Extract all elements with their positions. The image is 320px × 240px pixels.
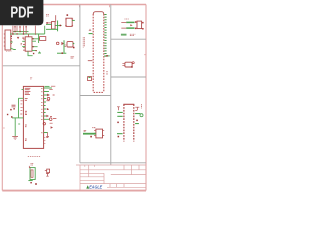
Q1 marks: [122, 63, 125, 65]
IC U4: [96, 129, 103, 138]
wire below U2: [28, 51, 33, 56]
crystal Q1: [125, 62, 132, 67]
label JP2: [141, 104, 143, 108]
junction: [7, 114, 8, 115]
EAGLE logo: [86, 185, 103, 190]
supply arrow down: [17, 37, 20, 39]
Y1 bottom marks: [28, 180, 32, 182]
label JP1: [83, 37, 84, 48]
connector J2: [137, 21, 142, 29]
wire: [126, 21, 134, 23]
wire bus lower: [10, 26, 45, 34]
U4 left ticks: [94, 131, 104, 136]
JP2 right marks: [135, 107, 139, 110]
U1 right pin ticks: [4, 34, 12, 46]
junction: [13, 108, 14, 109]
title block: [76, 165, 146, 191]
net ring: [140, 114, 143, 117]
capacitor plates: [12, 105, 16, 107]
label: [125, 18, 130, 20]
U3 pin-name text right inside: [41, 88, 43, 133]
label text below U1: [6, 51, 12, 53]
ground: [12, 137, 18, 140]
sheet divider H1: [3, 65, 80, 67]
wire top right: [45, 85, 50, 87]
sheet divider H right mid: [111, 76, 146, 78]
junction: [11, 36, 12, 37]
U3 left pin labels: [20, 101, 22, 114]
J2 pads: [135, 21, 144, 29]
supply arrow: [46, 115, 49, 118]
wire: [12, 117, 23, 119]
R1 left pin: [47, 22, 52, 24]
junction: [10, 109, 12, 111]
wire diagonal: [10, 48, 16, 50]
junction: [30, 182, 31, 183]
connector JP1 body: [93, 12, 104, 93]
U3 left green stub: [22, 89, 24, 91]
label marks: [21, 44, 23, 45]
header J3: [45, 169, 50, 176]
junction: [60, 25, 62, 27]
net ring: [49, 118, 52, 121]
label: [84, 130, 87, 131]
junction: [106, 55, 108, 57]
junction: [47, 108, 48, 109]
junction dots right of U2: [32, 38, 36, 51]
wire down at R3 left: [38, 34, 40, 43]
wire tails: [121, 22, 126, 28]
supply arrow right: [47, 94, 50, 97]
sheet divider H2: [80, 95, 111, 97]
IC U2: [25, 37, 32, 51]
junction: [118, 136, 120, 138]
wire stub: [38, 52, 41, 54]
wire: [57, 52, 66, 54]
wire stub: [10, 41, 13, 43]
C1 corner ticks: [65, 19, 73, 26]
label: [71, 57, 75, 58]
junction: [131, 66, 133, 68]
junction: [33, 53, 34, 54]
label Y1: [31, 164, 34, 165]
sheet divider H3: [80, 162, 146, 164]
wire: [104, 55, 109, 57]
label text: [22, 37, 24, 38]
wire: [117, 111, 122, 113]
wire: [46, 28, 58, 30]
connector JP2: [123, 104, 134, 141]
junction: [73, 47, 75, 49]
junction: [35, 183, 37, 185]
supply arrow down: [51, 126, 53, 128]
IC U1: [5, 30, 11, 50]
wire: [135, 123, 139, 125]
D1 green tick: [73, 43, 74, 45]
junction: [136, 120, 138, 122]
wire: [126, 27, 134, 29]
wire: [135, 113, 140, 115]
supply arrow: [130, 24, 132, 26]
wire: [19, 98, 24, 118]
sheet divider V1: [79, 5, 81, 163]
U2 top pin: [28, 34, 30, 37]
JP2 left marks: [117, 107, 120, 110]
junction: [117, 122, 119, 124]
wire: [46, 24, 52, 26]
wire: [55, 25, 62, 27]
pin label text right: [46, 86, 56, 137]
label below U3: [28, 156, 41, 158]
wire: [117, 115, 122, 117]
wire: [14, 118, 16, 136]
svg-text:EAGLE: EAGLE: [89, 185, 103, 190]
wire: [72, 19, 75, 21]
net label VCC: [121, 34, 127, 36]
net ring: [47, 97, 50, 100]
wire: [22, 46, 25, 48]
Q1 dot: [132, 62, 134, 64]
net ring small: [43, 123, 45, 125]
U3 pin-name text top-left inside: [25, 88, 31, 140]
pull-up stubs from badge: [13, 26, 35, 35]
label near V2: [106, 71, 108, 75]
svg-text:PDF: PDF: [10, 4, 33, 21]
junction: [67, 14, 69, 16]
diode D1: [67, 42, 73, 47]
frame border: [2, 5, 146, 191]
wire: [83, 133, 96, 135]
wire: [117, 133, 123, 135]
U2 left pins: [23, 39, 25, 50]
right edge pin ticks: [44, 137, 45, 143]
mark: [89, 29, 91, 30]
label above U3: [30, 78, 32, 79]
pin mark: [29, 166, 30, 168]
IC U3 (big): [23, 86, 43, 148]
junction dots on buses: [12, 26, 27, 35]
resistor R1: [52, 22, 56, 29]
junction: [11, 116, 13, 118]
wire bus upper: [13, 31, 29, 33]
junction: [62, 52, 64, 54]
supply arrow: [61, 42, 64, 46]
sheet divider V2: [110, 5, 112, 166]
pin mark: [88, 60, 93, 62]
capacitor C1: [66, 18, 72, 26]
transistor Q2: [88, 77, 92, 81]
U2 right wires: [32, 39, 40, 51]
crystal Y1: [30, 168, 35, 180]
label: [65, 45, 67, 46]
wire: [57, 21, 59, 32]
R1 top stub: [55, 15, 57, 21]
resistor R3: [40, 37, 46, 41]
PDF badge: [0, 0, 43, 25]
net ring: [56, 42, 59, 45]
red T mark: [46, 133, 49, 137]
wire: [22, 40, 25, 42]
label R1: [46, 15, 49, 16]
junction: [46, 22, 48, 24]
wire stub left of JP1: [89, 33, 93, 35]
green tick: [18, 123, 20, 125]
label text: [130, 34, 135, 35]
JP1 pin row green: [104, 15, 106, 57]
U3 right pin stubs: [44, 88, 52, 133]
sheet divider H right upper: [111, 38, 146, 40]
wire: [63, 40, 65, 53]
label U4: [92, 127, 96, 129]
junction: [90, 136, 92, 138]
